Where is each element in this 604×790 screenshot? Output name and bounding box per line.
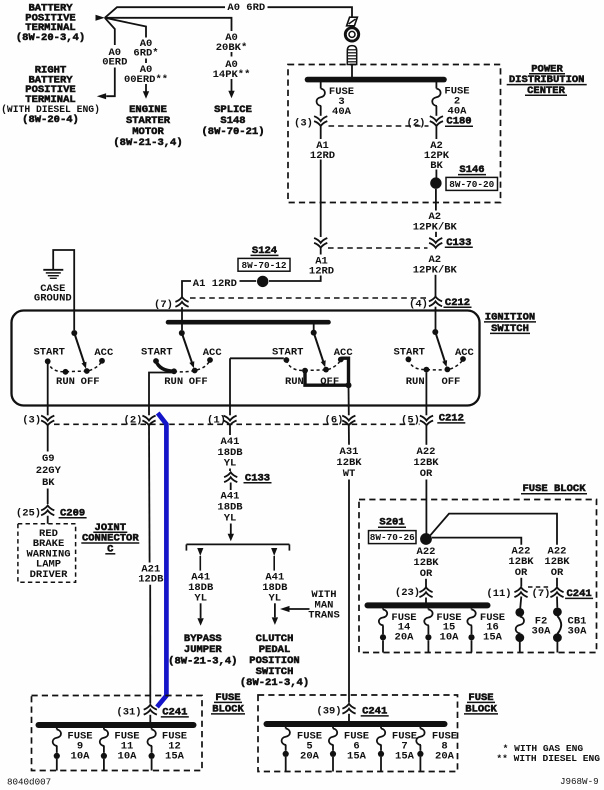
svg-text:ACC: ACC <box>94 347 114 359</box>
branch arrow right <box>271 548 277 556</box>
wire A1 12RD vertical <box>320 160 322 238</box>
svg-text:8040d007: 8040d007 <box>7 776 51 787</box>
fuse 3 40A <box>320 82 322 89</box>
connector C212 lower mating line <box>54 423 420 425</box>
fuse 14 20A <box>382 608 384 609</box>
wire S201 to connector 7 <box>430 514 557 545</box>
connector C212 upper mating line <box>190 297 426 299</box>
ground: case ground <box>53 250 74 330</box>
svg-text:8W-70-26: 8W-70-26 <box>370 532 415 543</box>
wire A2 to pin 4 <box>435 275 437 296</box>
wire: section 4 RUN to pin 5 <box>425 373 427 416</box>
svg-text:20A: 20A <box>435 750 455 762</box>
circuit breaker CB1 30A <box>556 597 558 608</box>
svg-text:12PK/BK: 12PK/BK <box>413 222 458 234</box>
svg-text:(8W-21-3,4): (8W-21-3,4) <box>113 137 182 149</box>
svg-text:40A: 40A <box>332 106 352 118</box>
svg-text:BYPASS: BYPASS <box>184 633 222 645</box>
wire A41 18DB YL upper <box>229 426 231 435</box>
svg-text:20A: 20A <box>395 632 415 644</box>
wire G9 22GY BK <box>47 426 49 452</box>
svg-text:** WITH DIESEL ENG: ** WITH DIESEL ENG <box>496 753 600 764</box>
fuse 8 20A <box>419 727 421 729</box>
svg-text:YL: YL <box>224 512 237 524</box>
fuse 15 10A <box>427 608 429 609</box>
fuse 12 15A <box>151 728 153 730</box>
wire A21 12DB <box>148 426 151 563</box>
svg-text:A1 12RD: A1 12RD <box>193 278 237 290</box>
splice bar to bypass jumper and clutch switch <box>186 543 289 545</box>
svg-text:(4): (4) <box>409 298 428 310</box>
svg-text:(8W-70-21): (8W-70-21) <box>201 126 264 138</box>
svg-text:12RD: 12RD <box>310 150 335 162</box>
bus bar: PDC <box>351 65 353 78</box>
svg-text:BK: BK <box>42 477 55 489</box>
wire A0 0ERD to right battery terminal <box>105 18 115 45</box>
svg-text:JUMPER: JUMPER <box>184 644 223 656</box>
wire A1 12RD run to ignition switch pin 7 <box>269 276 321 282</box>
branch arrow left <box>197 548 203 556</box>
ignition switch section 1 (rotor to OFF, feed from case ground) <box>71 330 77 336</box>
fuse 11 10A <box>103 728 105 730</box>
svg-text:0ERD: 0ERD <box>102 57 127 69</box>
svg-text:(8W-21-3,4): (8W-21-3,4) <box>240 677 309 689</box>
connector C133 left half <box>314 238 327 243</box>
wire A31 12BK WT <box>348 426 350 445</box>
fuse block (upper) box <box>359 500 597 653</box>
highlighted circuit (blue) <box>157 413 166 707</box>
svg-text:10A: 10A <box>440 632 460 644</box>
svg-text:START: START <box>393 347 425 359</box>
connector C180 mating line <box>329 125 429 127</box>
svg-text:15A: 15A <box>347 750 367 762</box>
fuse 16 15A <box>471 608 473 609</box>
fuse 9 10A <box>56 728 58 730</box>
node: right battery terminal arrow <box>97 93 106 99</box>
svg-text:(3): (3) <box>22 415 41 427</box>
svg-text:(5): (5) <box>401 415 420 427</box>
connector C133 (instrument panel) <box>224 472 237 477</box>
wire: section 3 START feed from pin 1 <box>230 357 284 359</box>
fuse F2 30A <box>520 597 521 609</box>
svg-text:YL: YL <box>194 592 207 604</box>
with man trans pointer <box>280 606 290 612</box>
svg-text:6RD*: 6RD* <box>133 48 158 60</box>
svg-text:(25): (25) <box>16 507 41 519</box>
svg-text:RUN: RUN <box>56 376 75 388</box>
svg-text:10A: 10A <box>71 751 91 763</box>
wire A22 12BK OR <box>425 426 427 445</box>
svg-text:(23): (23) <box>395 587 420 599</box>
svg-text:(3): (3) <box>294 118 313 130</box>
svg-text:8W-70-20: 8W-70-20 <box>449 179 494 190</box>
bus bar: ignition switch <box>168 320 329 325</box>
svg-text:(1): (1) <box>207 415 226 427</box>
bus bar: lower left fuse block <box>39 722 194 728</box>
svg-text:20A: 20A <box>300 750 320 762</box>
connector C133 mating line <box>328 247 428 249</box>
splice S124 dot <box>257 276 268 287</box>
svg-text:22GY: 22GY <box>36 465 62 477</box>
svg-text:12PK/BK: 12PK/BK <box>413 265 458 277</box>
svg-text:15A: 15A <box>165 751 185 763</box>
svg-text:OFF: OFF <box>81 376 100 388</box>
svg-text:OR: OR <box>420 568 433 580</box>
fuse 5 20A <box>285 727 287 729</box>
ignition switch section 3 (thick RUN-ACC bracket) <box>311 330 317 336</box>
svg-text:OR: OR <box>551 567 564 579</box>
fuse block (lower left) box <box>32 696 203 771</box>
svg-text:A0 6RD: A0 6RD <box>227 2 265 14</box>
svg-text:OFF: OFF <box>189 376 208 388</box>
svg-text:(11): (11) <box>486 588 511 600</box>
svg-text:(2): (2) <box>407 117 426 129</box>
svg-text:30A: 30A <box>568 626 588 638</box>
wire S201 to connector 11 <box>432 538 521 545</box>
svg-text:START: START <box>33 347 65 359</box>
svg-text:OFF: OFF <box>441 376 460 388</box>
svg-text:ACC: ACC <box>203 347 223 359</box>
svg-text:30A: 30A <box>532 626 552 638</box>
connector C241 upper mating line <box>528 586 550 588</box>
svg-text:(8W-20-4): (8W-20-4) <box>22 114 79 126</box>
ignition switch section 2 (thick START-RUN contact) <box>179 330 185 336</box>
bus bar: upper fuse block <box>368 602 488 608</box>
svg-text:TRANS: TRANS <box>308 610 340 622</box>
wire A0 6RD*/00ERD** to engine starter motor <box>105 18 146 38</box>
wire A0 20BK*/14PK** to splice S148 <box>105 18 232 31</box>
bus bar: lower right fuse block <box>267 721 445 727</box>
svg-text:(7): (7) <box>532 588 551 600</box>
svg-text:G9: G9 <box>42 453 55 465</box>
power distribution center box <box>288 65 501 203</box>
svg-text:15A: 15A <box>483 632 503 644</box>
svg-text:RUN: RUN <box>285 376 304 388</box>
svg-text:YL: YL <box>268 592 281 604</box>
node: battery feed arrow <box>96 15 105 21</box>
svg-text:OR: OR <box>515 567 528 579</box>
ignition switch box <box>12 311 480 406</box>
svg-text:START: START <box>141 347 173 359</box>
svg-text:15A: 15A <box>395 750 415 762</box>
svg-text:(39): (39) <box>316 705 341 717</box>
svg-text:(8W-21-3,4): (8W-21-3,4) <box>168 655 237 667</box>
connector C133 right half <box>435 232 437 237</box>
splice S146 <box>435 170 437 178</box>
svg-text:12DB: 12DB <box>138 574 164 586</box>
svg-text:(31): (31) <box>116 706 141 718</box>
svg-text:YL: YL <box>224 458 237 470</box>
svg-text:ACC: ACC <box>455 347 475 359</box>
svg-text:RUN: RUN <box>164 376 183 388</box>
ignition switch section 4 (feed from pin 4) <box>432 329 438 335</box>
svg-text:GROUND: GROUND <box>34 292 72 304</box>
terminal: battery feed eyelet and stud <box>347 17 358 26</box>
svg-text:(2): (2) <box>124 415 143 427</box>
wire: section 1 START to pin 3 <box>47 364 49 415</box>
svg-text:RUN: RUN <box>406 376 425 388</box>
svg-text:(8W-20-3,4): (8W-20-3,4) <box>16 32 85 44</box>
wire: section 2 RUN to pin 2 <box>149 373 174 416</box>
svg-text:WT: WT <box>343 468 356 480</box>
svg-text:(7): (7) <box>154 299 173 311</box>
fuse 2 40A <box>435 82 437 89</box>
svg-text:10A: 10A <box>118 751 138 763</box>
wire: section 3 ACC to pin 6 <box>348 385 350 415</box>
fuse 7 15A <box>380 727 382 729</box>
svg-text:OR: OR <box>420 468 433 480</box>
wire A41 18DB YL lower <box>230 483 232 491</box>
fuse 6 15A <box>332 727 334 729</box>
svg-text:J968W-9: J968W-9 <box>560 776 599 787</box>
svg-text:START: START <box>272 347 304 359</box>
svg-text:(6): (6) <box>325 415 344 427</box>
red brake warning lamp driver box <box>18 524 76 583</box>
wire A0 6RD to terminal stud <box>105 7 225 18</box>
fuse block (lower right) box <box>258 695 458 772</box>
svg-text:DRIVER: DRIVER <box>30 569 69 581</box>
svg-text:8W-70-12: 8W-70-12 <box>241 260 286 271</box>
